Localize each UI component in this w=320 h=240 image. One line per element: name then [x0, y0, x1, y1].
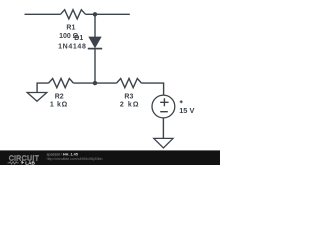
footer bar [0, 150, 220, 165]
wire R3 to source V1 [142, 83, 164, 95]
wire junction to diode anode [94, 14, 96, 37]
svg-text:R1: R1 [66, 24, 75, 31]
junction mid node [93, 81, 97, 85]
diode D1 [88, 37, 102, 49]
svg-text:2 kΩ: 2 kΩ [120, 101, 140, 108]
svg-text:15 V: 15 V [179, 106, 194, 115]
voltage source V1 [152, 95, 175, 118]
svg-text:1N4148: 1N4148 [58, 44, 86, 51]
wire top rail right [86, 13, 130, 15]
wire V1 to ground [162, 118, 164, 138]
resistor R3 [117, 79, 142, 88]
svg-text:LAB: LAB [25, 160, 35, 165]
polarity plus mark [180, 100, 183, 103]
wire ground stub to R2 [37, 83, 48, 92]
svg-text:1 kΩ: 1 kΩ [50, 101, 68, 108]
ground right [154, 138, 173, 148]
svg-text:D1: D1 [74, 35, 83, 42]
resistor R2 [49, 79, 74, 88]
wire diode cathode to mid junction [94, 49, 96, 84]
wire top rail left [25, 13, 61, 15]
ground left [27, 93, 47, 102]
resistor R1 [61, 10, 86, 19]
wire R2 to R3 [74, 82, 117, 84]
logo resistor zigzag [8, 162, 19, 165]
logo bolt [21, 160, 24, 165]
svg-text:http://circuitlab.com/c4969c58: http://circuitlab.com/c4969c58y53bb [47, 157, 103, 161]
svg-text:spassat / HH_1.45: spassat / HH_1.45 [47, 153, 78, 157]
svg-text:R2: R2 [55, 93, 64, 100]
junction top node [93, 12, 97, 16]
svg-text:R3: R3 [124, 93, 133, 100]
